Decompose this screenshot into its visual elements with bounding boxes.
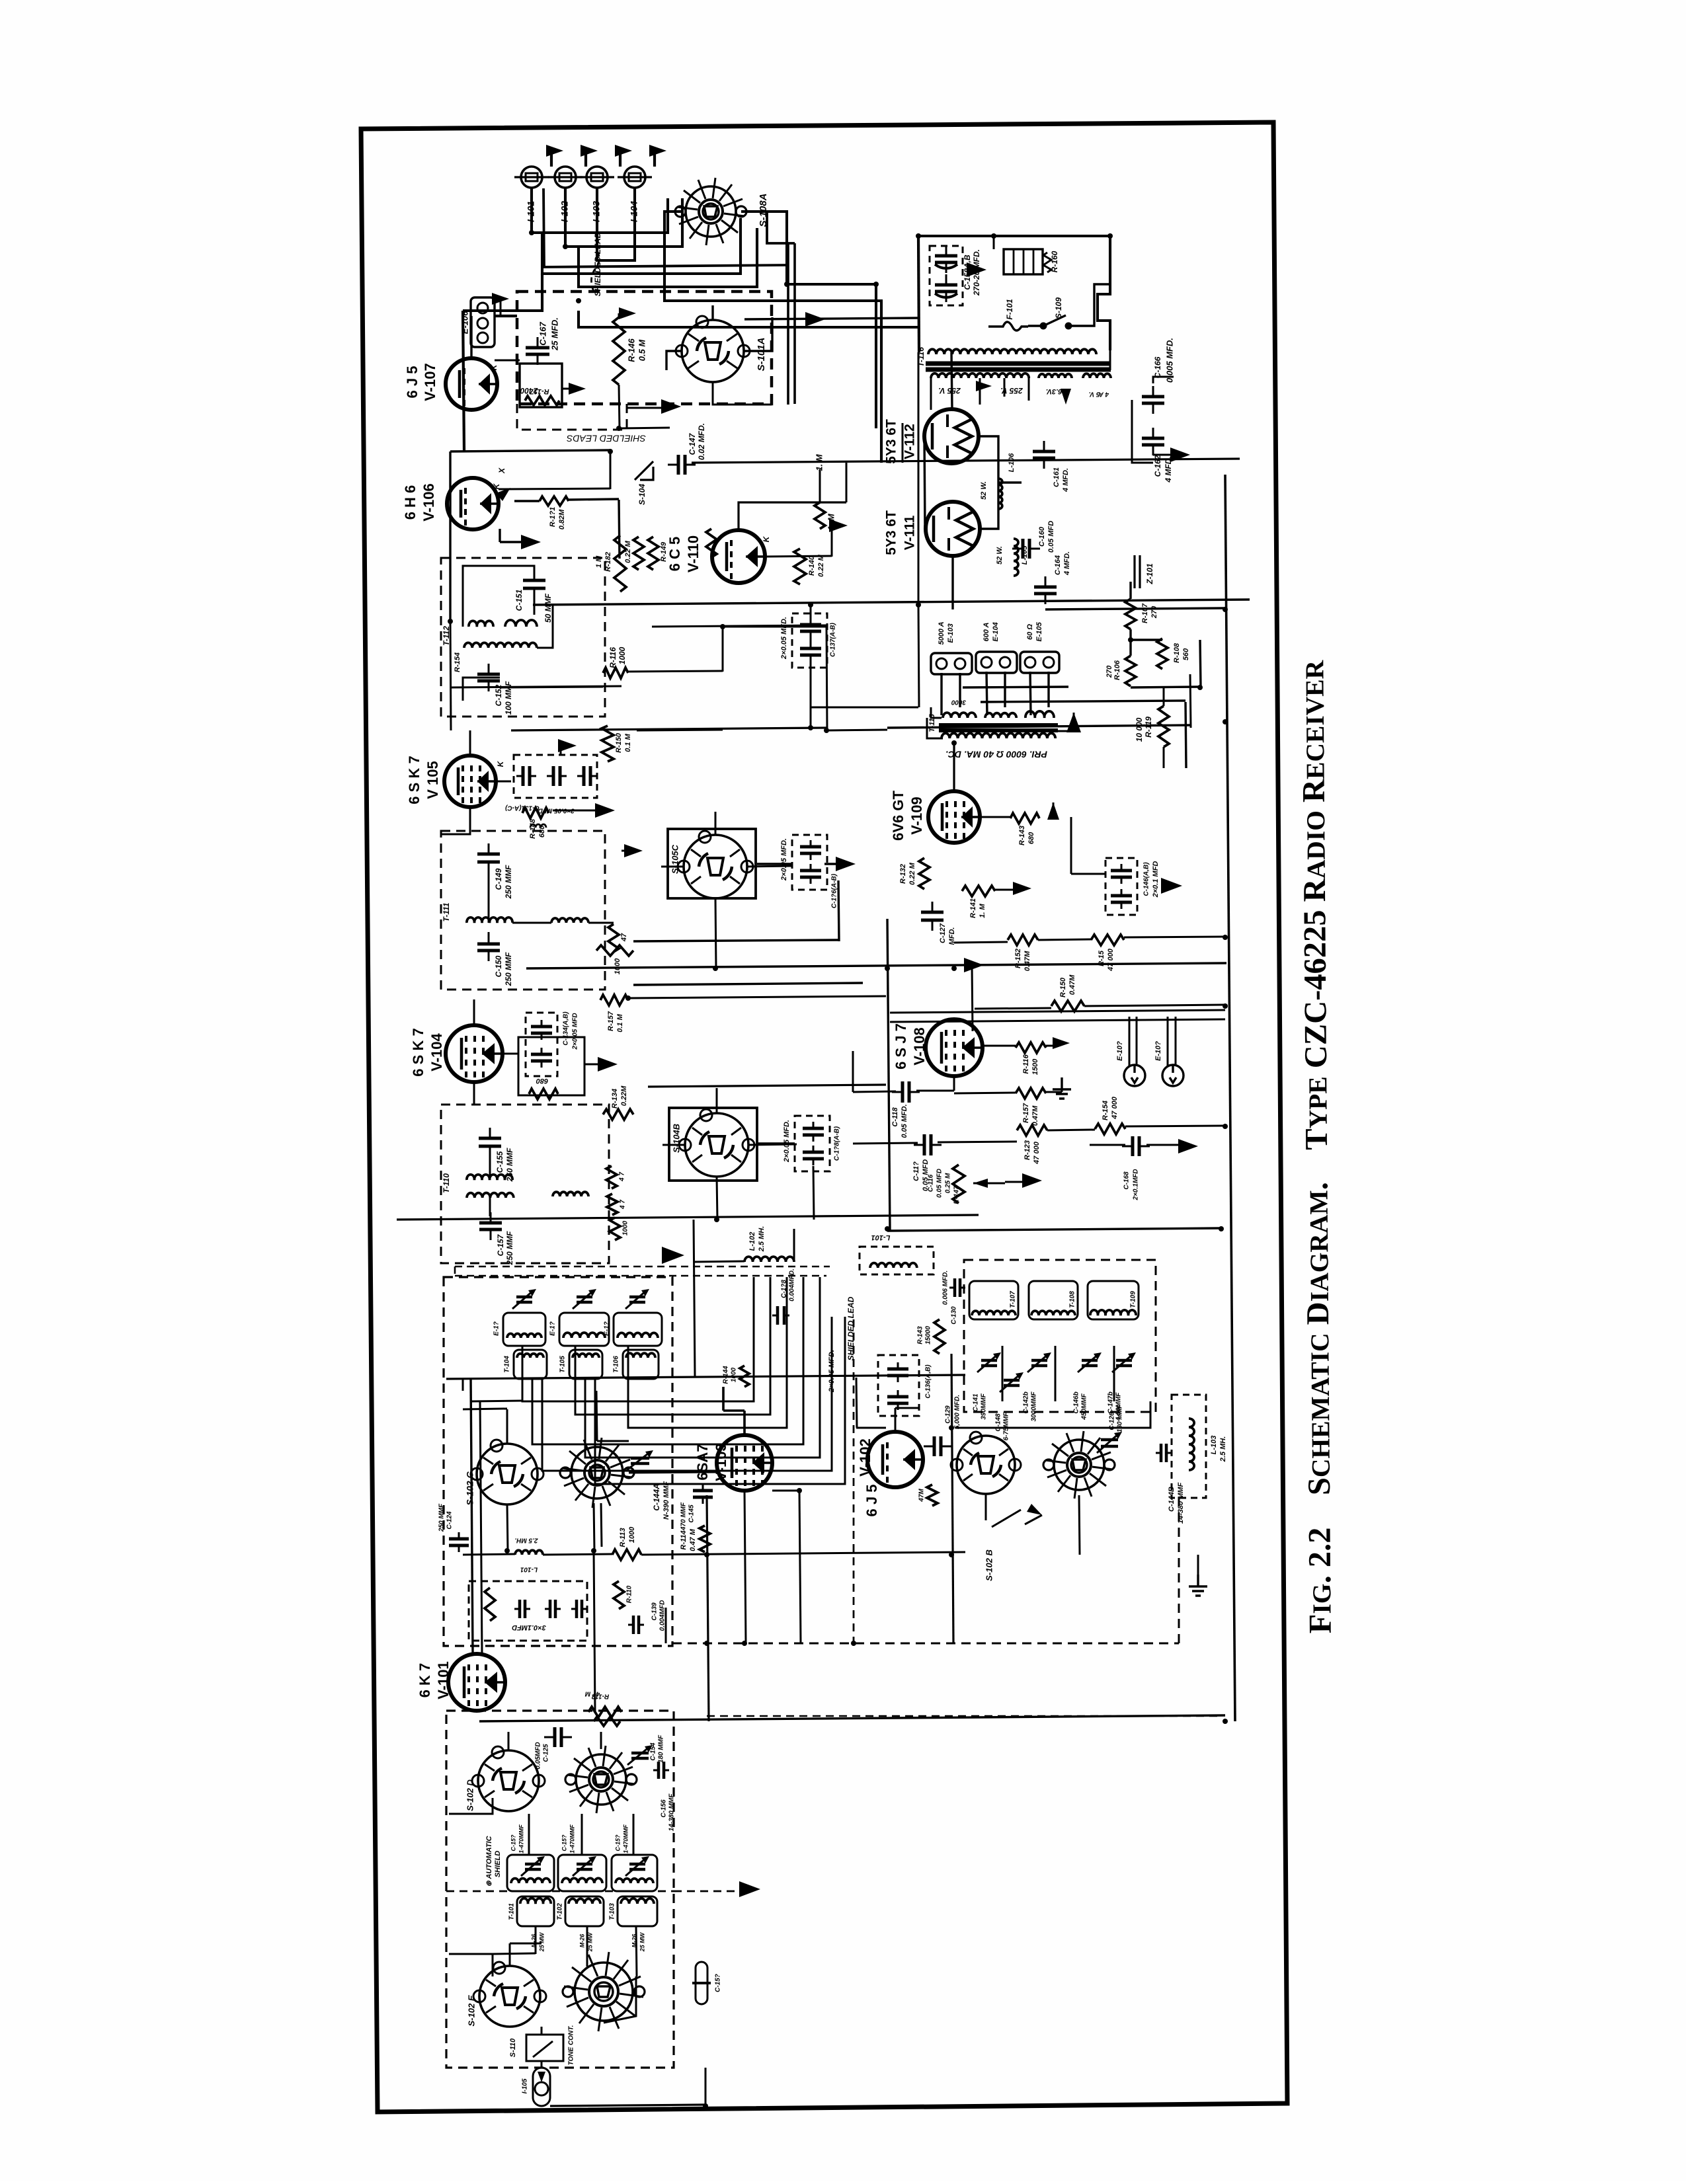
svg-text:C-15?: C-15? [510, 1834, 516, 1852]
wire [918, 605, 919, 707]
dual capacitor dashed box C-137 [792, 613, 827, 668]
wire [637, 730, 723, 730]
wire [449, 1798, 493, 1814]
svg-text:14-380 MMF: 14-380 MMF [668, 1793, 676, 1832]
arrow B+ [546, 145, 563, 157]
capacitor C-127 cathode [921, 912, 943, 920]
svg-text:1-470MMF: 1-470MMF [569, 1824, 575, 1853]
wire [450, 450, 610, 451]
wire [743, 212, 795, 243]
tube V-104 (6SK7) [446, 1025, 502, 1082]
junction [949, 1552, 954, 1557]
oscillator coil box T-108L [1029, 1281, 1078, 1319]
wire [543, 188, 544, 267]
wire [562, 388, 570, 390]
ground [1053, 1077, 1071, 1099]
svg-text:1. M: 1. M [979, 903, 986, 917]
output transformer T-115 pri coils [943, 713, 976, 718]
wire [542, 218, 741, 274]
wire [819, 469, 821, 502]
svg-text:C-127: C-127 [939, 923, 947, 943]
trimmer T-102p [577, 1864, 592, 1869]
capacitor C-145 470 MMF [693, 1491, 713, 1497]
svg-text:L-102: L-102 [748, 1232, 756, 1251]
wire [715, 812, 717, 835]
trimmer C-148 6-75MMF [1004, 1380, 1020, 1385]
wire [1132, 400, 1153, 463]
wire [480, 1401, 482, 1653]
svg-text:C-15?: C-15? [561, 1834, 567, 1852]
svg-text:3×0.1MFD: 3×0.1MFD [512, 1623, 546, 1631]
coil box T-107 upper [503, 1313, 545, 1346]
wire [543, 265, 788, 267]
svg-text:C-161: C-161 [1053, 467, 1061, 487]
dashed vertical [853, 1319, 855, 1643]
arrow [967, 262, 986, 277]
switch S-110 tone [526, 2035, 563, 2061]
svg-text:0.05 MFD: 0.05 MFD [936, 1169, 943, 1198]
svg-text:C-136(A,B): C-136(A,B) [925, 1364, 932, 1399]
wire [717, 1177, 717, 1220]
antenna dashed box [446, 1711, 674, 2068]
dual capacitor dashed box C-136 [878, 1355, 919, 1416]
coil T-110 winding a [467, 1175, 512, 1180]
resistor R-106 270 [1125, 656, 1136, 686]
svg-text:250 MMF: 250 MMF [504, 865, 513, 899]
svg-text:S-102 C: S-102 C [465, 1471, 475, 1505]
wire [504, 1053, 518, 1055]
svg-text:2×0.1MFD: 2×0.1MFD [1133, 1169, 1140, 1201]
wire [955, 1401, 1150, 1428]
svg-text:C-15?: C-15? [715, 1974, 722, 1992]
resistor R-123 47000 [1017, 1125, 1047, 1136]
output transformer T-115 core [939, 725, 1058, 730]
wire [471, 1401, 522, 1401]
wire [652, 625, 826, 627]
tube V-111 (5Y3 GT) rectifier [926, 502, 980, 556]
arrow [1013, 882, 1031, 895]
wire [628, 1441, 629, 1473]
wire shield pair down [788, 243, 795, 405]
svg-text:⊕ AUTOMATIC: ⊕ AUTOMATIC [485, 1836, 493, 1887]
arrow [558, 739, 577, 752]
wire [500, 541, 524, 543]
capacitor C-146B [1111, 896, 1132, 902]
IF transformer T-110 dashed box [441, 1105, 609, 1263]
resistor R-117b 1000 [596, 945, 633, 956]
svg-text:4 MFD.: 4 MFD. [1063, 551, 1071, 576]
wire [512, 922, 551, 924]
svg-text:2.5 MH.: 2.5 MH. [758, 1226, 766, 1253]
capacitor C-137A [800, 625, 821, 631]
trimmer cap T-109 [629, 1297, 645, 1302]
capacitor C-147 0.02 MFD [678, 455, 685, 475]
wire [597, 1440, 629, 1442]
capacitor C-142A [520, 1600, 525, 1618]
capacitor C-139 0.004MFD [633, 1616, 639, 1634]
capacitor C-119 0.015 [924, 1134, 931, 1155]
svg-text:47 000: 47 000 [1107, 948, 1115, 972]
svg-text:C-164: C-164 [1054, 555, 1062, 575]
svg-text:60 Ω: 60 Ω [1026, 624, 1034, 640]
arrow plate supply [805, 312, 825, 327]
capacitor C-144B symbol [1161, 1444, 1166, 1462]
svg-text:T-111: T-111 [442, 902, 451, 921]
wire harness osc [1002, 1346, 1004, 1401]
svg-text:470 MMF: 470 MMF [680, 1502, 688, 1531]
IF transformer T-111 dashed box [441, 831, 605, 990]
wire [1190, 674, 1191, 728]
wire [569, 499, 619, 500]
svg-text:4 7: 4 7 [619, 1172, 626, 1182]
svg-text:15000: 15000 [925, 1326, 932, 1345]
wire [831, 529, 833, 557]
svg-text:C-124: C-124 [446, 1511, 454, 1530]
rotary switch S-102E [479, 1966, 540, 2027]
svg-text:250 MMF: 250 MMF [438, 1503, 446, 1532]
svg-text:0.5 M: 0.5 M [637, 339, 647, 362]
antenna coil box T-103 [618, 1896, 657, 1926]
svg-text:C-166: C-166 [1153, 356, 1162, 378]
svg-text:T-108: T-108 [1069, 1291, 1076, 1308]
svg-text:5Y3 6T: 5Y3 6T [884, 510, 899, 555]
coil box T-108 upper [559, 1313, 609, 1346]
resistor R-113 1000 [612, 1549, 641, 1560]
wire [579, 228, 757, 287]
svg-text:T-104: T-104 [504, 1356, 511, 1373]
wire [998, 481, 1022, 483]
svg-text:C-134(A,B): C-134(A,B) [563, 1011, 570, 1046]
svg-text:2×0.05 MFD: 2×0.05 MFD [572, 1013, 579, 1050]
capacitor C-167 25 MFD [526, 348, 549, 354]
caption FIG. 2.2 SCHEMATIC DIAGRAM. TYPE CZC-46225 RADIO RECEIVER [1295, 660, 1338, 1633]
wire audio loop left [887, 919, 890, 1231]
svg-text:R-143: R-143 [1018, 826, 1026, 845]
resistor R-151b 47 [608, 924, 619, 952]
wire [446, 1732, 447, 1745]
arrow mid [624, 844, 643, 857]
svg-text:0.25 M: 0.25 M [945, 1173, 952, 1193]
choke L-101b 2.5MH [515, 1550, 543, 1555]
wire [1225, 1553, 1226, 1721]
svg-text:4 7: 4 7 [620, 1200, 627, 1210]
svg-text:C-167: C-167 [538, 322, 547, 346]
capacitor C-162 4 MFD [1142, 438, 1164, 445]
arrow center tap [976, 381, 992, 391]
wire [813, 1166, 814, 1220]
shield dashed lead squiggle [591, 252, 599, 292]
wire [1083, 284, 1110, 326]
electrolytic capacitor C-158B [935, 285, 957, 292]
arrow [1161, 878, 1182, 894]
rotary switch S-102C [477, 1444, 538, 1504]
resistor R-108 560 [1157, 639, 1168, 669]
wire [463, 1554, 515, 1555]
capacitor C-149 250 MMF [477, 854, 500, 862]
svg-text:6 K 7: 6 K 7 [417, 1663, 433, 1698]
capacitor C-156 14-380MMF [659, 1762, 664, 1779]
svg-text:R-144: R-144 [723, 1366, 730, 1384]
junction [916, 602, 921, 607]
resistor R-140 0.22M [794, 549, 806, 584]
wire [469, 730, 471, 756]
resistor R-143 15000 [934, 1319, 945, 1354]
junction [1223, 1719, 1228, 1724]
capacitor C-136bB [800, 871, 821, 877]
wire [619, 385, 620, 428]
capacitor C-155 250 MMF [479, 1138, 501, 1146]
capacitor C-168 [1133, 1136, 1139, 1156]
resistor R-116 1000 [603, 668, 628, 678]
wire [506, 1409, 508, 1444]
rotary switch S-108A [686, 186, 736, 237]
junction [808, 725, 813, 730]
svg-text:50 MMF: 50 MMF [543, 593, 553, 623]
svg-text:47 M: 47 M [584, 1690, 600, 1697]
junction [797, 1488, 802, 1493]
svg-text:E-105: E-105 [1035, 621, 1043, 641]
wire [473, 1083, 475, 1105]
arrow [598, 1057, 618, 1072]
svg-text:R-1?1: R-1?1 [549, 507, 557, 527]
pot wiper [973, 1179, 988, 1188]
svg-text:6 H 6: 6 H 6 [402, 485, 419, 520]
resistor block R-160 [1004, 249, 1043, 274]
junction [1223, 1124, 1228, 1129]
fuse F-101 [988, 322, 1028, 331]
svg-text:2.5 MH.: 2.5 MH. [1219, 1436, 1227, 1463]
oscillator dashed box [964, 1260, 1156, 1412]
svg-text:C-151: C-151 [514, 589, 524, 611]
resistor R-151 0.82M [540, 496, 569, 506]
svg-text:450MMF: 450MMF [1081, 1393, 1088, 1420]
wire [533, 600, 1250, 605]
coil box T-104 [514, 1350, 547, 1379]
wire [479, 1715, 1225, 1721]
tuning capacitor C-144B rotor [1054, 1440, 1104, 1490]
arrow [619, 307, 636, 319]
junction [704, 1552, 709, 1557]
wire harness [595, 1317, 845, 1484]
svg-text:3000: 3000 [951, 698, 966, 705]
coil T-112 small loops b [505, 620, 537, 627]
svg-text:0.05 MFD.: 0.05 MFD. [901, 1104, 908, 1138]
trimmer C-144A [631, 1458, 649, 1463]
junction [969, 962, 975, 968]
wire heater run [881, 462, 928, 463]
svg-text:R-116: R-116 [608, 647, 618, 668]
junction [885, 1226, 890, 1231]
wire [890, 1010, 1225, 1013]
svg-text:V-108: V-108 [911, 1027, 928, 1066]
capacitor C-148A [803, 1128, 824, 1135]
svg-text:S-102 E: S-102 E [466, 1995, 476, 2026]
wire [826, 730, 887, 730]
wire [665, 1608, 667, 1643]
switch S-109 [1043, 315, 1083, 326]
svg-text:250 MMF: 250 MMF [505, 1231, 514, 1265]
rotary switch S-101A [682, 320, 744, 382]
wire rectifier plates [918, 436, 924, 437]
svg-text:C-11?: C-11? [912, 1161, 920, 1181]
trimmer C-154 180MMF [631, 1753, 649, 1758]
rotary switch S-105C [684, 835, 747, 898]
wire [693, 1220, 694, 1262]
svg-text:M-26: M-26 [579, 1933, 585, 1947]
svg-text:5Y3 6T: 5Y3 6T [884, 419, 899, 464]
resistor box R-133 [518, 1037, 584, 1095]
wire [604, 1976, 636, 2023]
wire [462, 1379, 464, 1391]
antenna coil box T-102p [558, 1855, 606, 1891]
svg-text:L-106: L-106 [1008, 453, 1016, 473]
resistor R-149 [648, 537, 659, 570]
trimmer C-146b 450MMF [1082, 1360, 1098, 1366]
transformer T-116 secondary 6.3V [1039, 374, 1072, 378]
tube V-112 (5Y3 GT) rectifier [924, 409, 979, 463]
svg-text:S-109: S-109 [1054, 297, 1063, 319]
wire [534, 595, 536, 615]
wire [633, 940, 838, 941]
svg-text:1000: 1000 [622, 1220, 629, 1235]
svg-text:2×0.05 MFD.: 2×0.05 MFD. [780, 617, 788, 660]
wire [853, 1143, 918, 1144]
wire [463, 678, 500, 701]
wire [661, 866, 684, 868]
junction [1128, 637, 1133, 643]
junction [1219, 1226, 1224, 1231]
wire [1045, 608, 1225, 609]
wire [1038, 939, 1091, 940]
arrow shielded-lead [662, 1247, 684, 1264]
rotary switch S-101Ab [576, 1754, 626, 1805]
wire [588, 922, 614, 924]
wire [853, 1091, 896, 1092]
svg-text:T-101: T-101 [508, 1903, 516, 1920]
svg-text:R-15: R-15 [1098, 950, 1105, 966]
svg-text:V-111: V-111 [903, 515, 918, 550]
resistor R-150 0.1M [602, 726, 614, 761]
svg-text:C-1?6(A-B): C-1?6(A-B) [831, 873, 838, 908]
wire harness [585, 1315, 820, 1458]
svg-text:0.47M: 0.47M [1068, 974, 1076, 995]
wire [757, 863, 792, 865]
svg-text:K: K [489, 364, 499, 370]
svg-text:C-149: C-149 [494, 868, 503, 890]
wire [1185, 702, 1186, 768]
svg-text:1500: 1500 [1031, 1058, 1039, 1075]
svg-text:C-141: C-141 [973, 1393, 980, 1412]
wire S-103 to 6SA7 [629, 1472, 717, 1473]
svg-text:R-113: R-113 [619, 1528, 627, 1547]
svg-text:6-75MMF: 6-75MMF [1003, 1412, 1010, 1441]
svg-text:390MMF: 390MMF [981, 1393, 988, 1419]
capacitor C-136bA [800, 847, 821, 853]
filter choke L-106 [998, 479, 1002, 509]
tube V-108 (6SJ7) [926, 1019, 983, 1076]
wire [980, 436, 998, 529]
resistor R-152 0.47M [1008, 935, 1038, 945]
wire [744, 1387, 745, 1411]
svg-text:6 J 5: 6 J 5 [863, 1485, 880, 1517]
capacitor C-129 5000MFD [934, 1436, 941, 1456]
junction [824, 728, 829, 733]
svg-text:C-147: C-147 [688, 432, 697, 455]
capacitor C-125 [555, 1727, 561, 1747]
wire [713, 382, 772, 405]
svg-text:E-1?: E-1? [604, 1321, 611, 1336]
svg-text:E-104: E-104 [992, 622, 1000, 641]
wire [744, 1228, 887, 1229]
resistor R-148 680 [522, 808, 549, 818]
svg-text:T-110: T-110 [442, 1173, 451, 1193]
resistor R-150b 0.47M [1051, 1001, 1084, 1011]
coil box T-109 upper [614, 1313, 662, 1346]
wire [594, 1551, 595, 1712]
wire [983, 1045, 1016, 1047]
coil T-112 small loops a [469, 621, 493, 627]
svg-text:S-102 D: S-102 D [465, 1779, 475, 1811]
pilot lamp I-103 [586, 167, 608, 188]
resistor R-134 0.22M [603, 1109, 633, 1120]
svg-text:2.5 MH.: 2.5 MH. [514, 1536, 538, 1543]
wire [918, 352, 920, 605]
capacitor C-124 250MMF [449, 1539, 469, 1545]
wire [895, 1407, 919, 1409]
svg-text:47M: 47M [918, 1489, 926, 1502]
terminal strip E-106 [471, 297, 495, 347]
junction [713, 966, 718, 971]
resistor R-154 47000 [1091, 935, 1124, 945]
capacitor C-157 250 MMF [479, 1223, 502, 1229]
wire plate [739, 502, 846, 530]
trimmer cap T-107 [516, 1297, 532, 1302]
svg-text:255 V.: 255 V. [938, 386, 961, 395]
wire [1200, 640, 1201, 687]
coil L-103 [1189, 1419, 1194, 1470]
wire [707, 1485, 1466, 1491]
svg-text:4 MFD.: 4 MFD. [1062, 468, 1070, 492]
antenna coil box T-101 [517, 1896, 554, 1926]
wire [449, 1954, 493, 1976]
shielded lead dashed pair [455, 1267, 830, 1277]
wire speaker loop [927, 718, 943, 738]
wire [744, 1491, 746, 1643]
svg-text:600 A: 600 A [983, 622, 990, 641]
svg-text:C-150: C-150 [494, 955, 503, 977]
tube V-102 (6J5) [867, 1432, 923, 1487]
wire [972, 965, 973, 1031]
coil T-110 middle [553, 1192, 588, 1196]
svg-text:0.47M: 0.47M [1024, 951, 1031, 971]
wire [510, 1943, 542, 1945]
arrow cathode ground [569, 383, 586, 395]
svg-text:100 MMF: 100 MMF [504, 681, 513, 715]
trimmer C-142b 3000MMF [1031, 1360, 1047, 1366]
svg-text:R-141: R-141 [969, 898, 977, 918]
svg-text:K: K [762, 535, 771, 542]
wire ant sw [508, 1732, 510, 1750]
resistor R-1xx [594, 1717, 620, 1726]
svg-text:R-116: R-116 [1022, 1054, 1030, 1074]
tube V-101 (6K7) [448, 1654, 505, 1711]
svg-text:C-144B: C-144B [1168, 1487, 1176, 1512]
wire [560, 746, 562, 755]
svg-text:0.22 M: 0.22 M [624, 540, 632, 563]
shield Z-101 [1135, 555, 1140, 588]
oscillator coil box T-109L [1088, 1281, 1139, 1319]
svg-text:0.1 M: 0.1 M [616, 1013, 624, 1032]
